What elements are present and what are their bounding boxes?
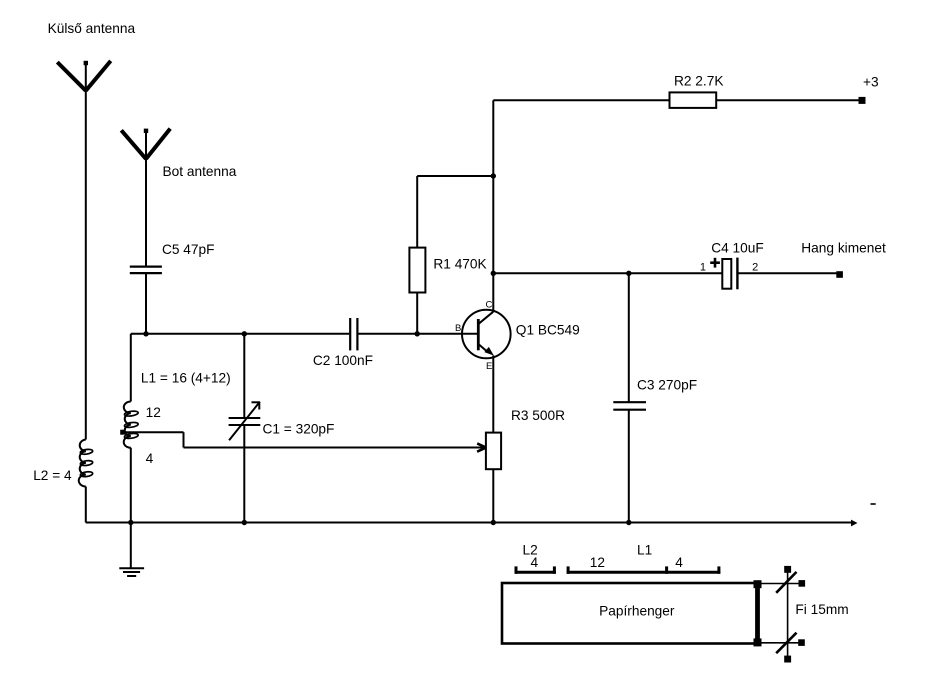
svg-text:Bot antenna: Bot antenna [163, 164, 237, 179]
svg-text:R3 500R: R3 500R [511, 408, 565, 423]
svg-text:C5 47pF: C5 47pF [162, 242, 215, 257]
svg-text:Külső antenna: Külső antenna [48, 21, 136, 36]
svg-text:1: 1 [700, 262, 706, 274]
svg-text:4: 4 [675, 555, 683, 570]
svg-text:+3: +3 [863, 74, 879, 89]
svg-text:R2 2.7K: R2 2.7K [674, 74, 723, 89]
svg-text:L2 = 4: L2 = 4 [33, 468, 72, 483]
svg-text:4: 4 [146, 451, 154, 466]
svg-text:4: 4 [531, 555, 539, 570]
svg-text:R1 470K: R1 470K [433, 257, 486, 272]
svg-text:C3 270pF: C3 270pF [637, 378, 697, 393]
svg-text:Q1 BC549: Q1 BC549 [516, 323, 580, 338]
svg-text:Fi 15mm: Fi 15mm [795, 602, 848, 617]
svg-text:12: 12 [590, 555, 605, 570]
svg-text:C1 = 320pF: C1 = 320pF [263, 422, 335, 437]
svg-text:12: 12 [146, 405, 161, 420]
svg-text:Hang kimenet: Hang kimenet [801, 240, 886, 255]
svg-text:Papírhenger: Papírhenger [599, 603, 675, 618]
svg-text:L1: L1 [637, 542, 652, 557]
svg-text:B: B [455, 323, 461, 334]
svg-text:C2 100nF: C2 100nF [313, 353, 373, 368]
svg-text:C: C [486, 299, 493, 310]
svg-text:L1 = 16 (4+12): L1 = 16 (4+12) [141, 371, 231, 386]
svg-text:2: 2 [752, 261, 758, 273]
svg-text:E: E [486, 361, 492, 372]
svg-text:C4 10uF: C4 10uF [711, 240, 764, 255]
